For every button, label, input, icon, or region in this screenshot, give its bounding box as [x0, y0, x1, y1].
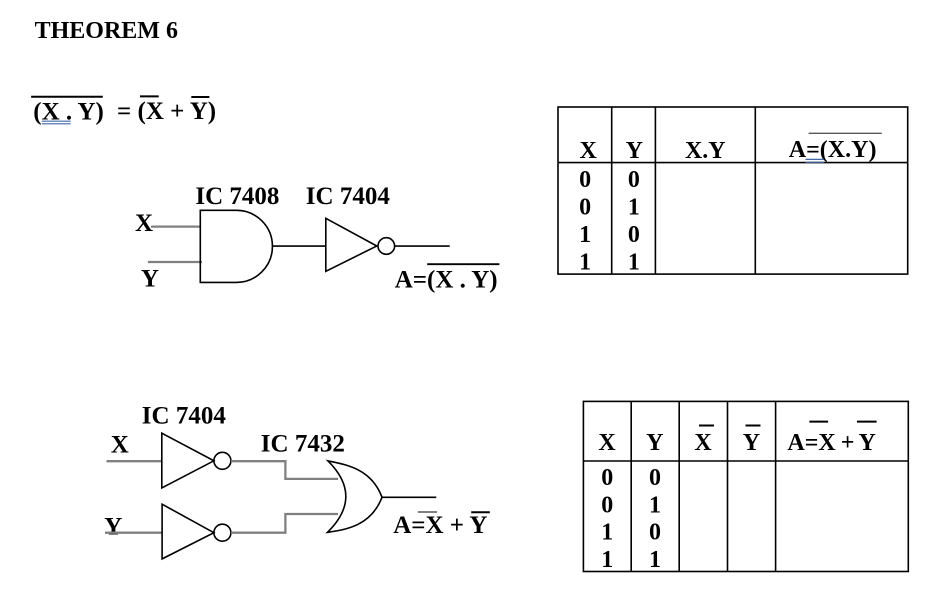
svg-text:X.Y: X.Y: [685, 138, 726, 164]
svg-text:X: X: [135, 210, 153, 237]
svg-text:1: 1: [628, 250, 640, 276]
svg-text:Y: Y: [743, 430, 760, 456]
svg-text:A=(X . Y): A=(X . Y): [395, 267, 498, 294]
svg-text:0: 0: [628, 222, 640, 248]
svg-text:IC 7404: IC 7404: [306, 183, 391, 210]
svg-text:0: 0: [579, 167, 591, 193]
svg-text:THEOREM 6: THEOREM 6: [35, 18, 178, 44]
svg-text:X: X: [580, 138, 598, 164]
svg-text:Y: Y: [104, 513, 122, 540]
svg-text:1: 1: [579, 250, 591, 276]
svg-text:1: 1: [649, 547, 661, 573]
svg-text:A=X + Y: A=X + Y: [787, 430, 875, 456]
svg-text:Y: Y: [626, 138, 643, 164]
svg-text:A=(X.Y): A=(X.Y): [789, 137, 877, 163]
svg-text:X: X: [598, 430, 616, 456]
svg-text:1: 1: [601, 547, 613, 573]
svg-text:0: 0: [579, 195, 591, 221]
svg-text:0: 0: [601, 465, 613, 491]
svg-text:A=X + Y: A=X + Y: [393, 512, 487, 539]
svg-text:1: 1: [579, 222, 591, 248]
svg-text:IC 7408: IC 7408: [195, 183, 279, 210]
svg-text:0: 0: [628, 167, 640, 193]
svg-text:1: 1: [628, 195, 640, 221]
svg-text:= (X + Y): = (X + Y): [117, 98, 216, 125]
svg-text:0: 0: [601, 492, 613, 518]
svg-text:Y: Y: [141, 265, 159, 292]
svg-text:X: X: [694, 430, 712, 456]
svg-text:IC 7432: IC 7432: [261, 431, 345, 458]
svg-text:0: 0: [649, 465, 661, 491]
svg-text:0: 0: [649, 520, 661, 546]
svg-text:1: 1: [601, 520, 613, 546]
svg-text:X: X: [111, 432, 129, 459]
svg-text:1: 1: [649, 492, 661, 518]
svg-text:IC 7404: IC 7404: [142, 403, 227, 430]
svg-text:Y: Y: [646, 430, 663, 456]
